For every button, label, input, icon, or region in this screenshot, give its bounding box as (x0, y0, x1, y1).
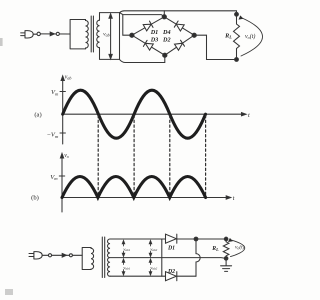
diode D2 (bottom circuit) (166, 272, 177, 281)
tick Vm (b) (59, 175, 64, 177)
wire arrow (bottom) (62, 254, 66, 258)
node left (130, 33, 134, 37)
svg-text:(b): (b) (31, 194, 39, 201)
waveform (b) x-axis (62, 197, 229, 199)
node bottom (163, 53, 167, 57)
svg-text:D2: D2 (167, 269, 175, 275)
transformer T1 core (91, 16, 93, 52)
v_ab2 arrow (upper right) (149, 240, 152, 256)
svg-text:D1: D1 (150, 29, 159, 36)
tick -Vm (a) (60, 132, 65, 134)
waveform (b) y-axis (61, 156, 63, 213)
svg-text:vab1: vab1 (123, 246, 130, 252)
diode D1 (143, 21, 153, 31)
svg-text:vab1: vab1 (123, 265, 130, 271)
junction node (194, 237, 198, 241)
wire top rail to load (120, 11, 237, 15)
svg-text:−Vm: −Vm (46, 132, 58, 139)
v_ab measurement arrow (109, 14, 112, 59)
svg-text:D2: D2 (162, 36, 171, 43)
wire secondary bottom to bridge bottom node (120, 55, 165, 62)
waveform (a) y-axis (62, 78, 64, 144)
scan smudge bottom-left (5, 289, 13, 295)
bridge diamond wires (132, 17, 194, 55)
wire stub to bridge top node (163, 11, 165, 17)
transformer T2 secondary loops (110, 239, 162, 276)
transformer T2 core (102, 237, 104, 278)
transformer T1 primary loop (70, 20, 85, 49)
connector circle 1 (top) (37, 32, 40, 35)
transformer T2 primary coil (91, 248, 94, 269)
wire plug to transformer (top) (40, 33, 70, 35)
dashed line 1 (97, 115, 99, 197)
svg-text:D3: D3 (150, 36, 159, 43)
svg-text:D4: D4 (162, 29, 171, 36)
resistor RL (bottom) (223, 239, 229, 258)
wire center tap (162, 257, 226, 260)
ground (221, 258, 232, 271)
diode D1 (bottom circuit) (166, 234, 177, 243)
vo(t) arc (top) (241, 18, 263, 57)
transformer T2 primary loop (82, 248, 91, 270)
scan smudge top-left edge (0, 38, 3, 46)
node right (192, 33, 196, 37)
v_ab1 arrow (upper left) (122, 240, 125, 256)
svg-text:RL: RL (224, 32, 232, 39)
vo(t) arc (bottom) (231, 240, 245, 257)
wire bridge right node to load bottom (194, 35, 236, 59)
svg-text:vab2: vab2 (150, 265, 157, 271)
svg-text:vab: vab (103, 32, 109, 38)
v_ab1 arrow (lower left) (122, 259, 125, 275)
svg-text:vab2: vab2 (150, 246, 157, 252)
AC plug (top circuit) (21, 31, 37, 38)
wire D2 join vertical with hop (196, 239, 200, 276)
rectified wave (b) (62, 177, 206, 198)
waveform (a) x-axis (63, 113, 244, 115)
resistor RL (top) (234, 14, 240, 59)
connector circle 2 (bottom) (69, 254, 72, 257)
dashed line 3 (169, 115, 171, 197)
node RL bottom (235, 58, 239, 62)
diode D3 (143, 40, 153, 50)
node RL top (235, 12, 239, 16)
svg-text:vo: vo (64, 153, 69, 159)
svg-text:RL: RL (211, 246, 219, 252)
dashed line 2 (133, 115, 135, 197)
svg-text:t: t (233, 195, 235, 202)
wire secondary to bridge left node (120, 13, 165, 36)
dashed line 4 (205, 115, 207, 197)
node RL top (bottom circuit) (224, 237, 228, 241)
svg-text:vab: vab (65, 75, 72, 81)
wire bottom secondary to D2 (162, 275, 196, 277)
svg-text:Vm: Vm (50, 174, 58, 181)
connector circle 2 (top) (56, 32, 59, 35)
svg-text:vo(t): vo(t) (235, 244, 245, 251)
sine wave (a) (63, 90, 206, 138)
transformer T1 primary coil (86, 21, 89, 49)
node RL bottom (bottom circuit) (224, 257, 228, 261)
diode D2 (175, 40, 185, 50)
transformer T1 secondary coil (97, 20, 100, 48)
transformer T2 secondary coil (center-tapped) (108, 239, 110, 276)
AC plug (bottom circuit) (29, 252, 48, 259)
tick Vm (a) (60, 91, 65, 93)
svg-text:Vm: Vm (51, 89, 59, 96)
svg-text:D1: D1 (167, 246, 175, 252)
wire arrow (top) (50, 32, 54, 36)
wire top secondary to D1 (162, 238, 226, 240)
svg-text:vo(t): vo(t) (245, 33, 255, 40)
connector circle 1 (bottom) (48, 254, 51, 257)
svg-text:t: t (248, 112, 250, 119)
wire plug to transformer (bottom) (52, 254, 83, 256)
transformer T1 secondary loop (100, 13, 120, 60)
node top (162, 15, 166, 19)
diode D4 (174, 21, 184, 31)
svg-text:(a): (a) (34, 111, 41, 118)
v_ab2 arrow (lower right) (149, 259, 152, 275)
